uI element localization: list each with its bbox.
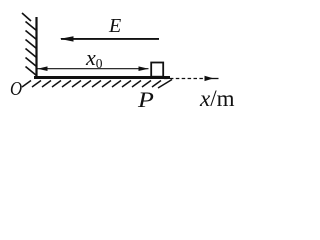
ground hatch 9: [102, 81, 111, 88]
wall hatch 7: [26, 67, 37, 76]
ground hatch 4: [52, 81, 61, 88]
axis arrowhead: [205, 76, 214, 81]
ground hatch 14: [152, 81, 161, 88]
wall: [35, 17, 37, 79]
label x/m: [200, 86, 235, 112]
wall hatch 2: [26, 22, 37, 31]
ground hatch 3: [42, 81, 51, 88]
ground hatch 1: [22, 81, 31, 88]
wall hatch 3: [26, 31, 37, 40]
wall hatch 6: [26, 58, 37, 67]
ground hatch 6: [72, 81, 81, 88]
x0 dimension line: [38, 68, 149, 70]
ground hatch 15: [158, 80, 172, 89]
label O (origin): [10, 78, 22, 101]
E field arrow line: [61, 38, 159, 40]
ground line thick: [34, 76, 170, 79]
ground hatch 10: [112, 81, 121, 88]
label P: [138, 87, 154, 113]
ground hatch 11: [122, 81, 131, 88]
axis dashed segment: [164, 78, 205, 80]
x0 left arrowhead: [38, 66, 48, 71]
x0 right arrowhead: [139, 66, 149, 71]
wall hatch 5: [26, 49, 37, 58]
wall hatch 1: [22, 13, 31, 21]
axis overshoot line: [205, 78, 219, 80]
ground hatch 5: [62, 81, 71, 88]
ground hatch 8: [92, 81, 101, 88]
wall hatch 4: [26, 40, 37, 49]
label x0: [86, 45, 103, 71]
ground hatch 7: [82, 81, 91, 88]
ground hatch 12: [132, 81, 141, 88]
label E: [109, 15, 121, 38]
ground hatch 13: [142, 81, 151, 88]
block at P: [151, 63, 163, 77]
E field arrowhead: [60, 36, 74, 41]
ground hatch 2: [32, 81, 41, 88]
